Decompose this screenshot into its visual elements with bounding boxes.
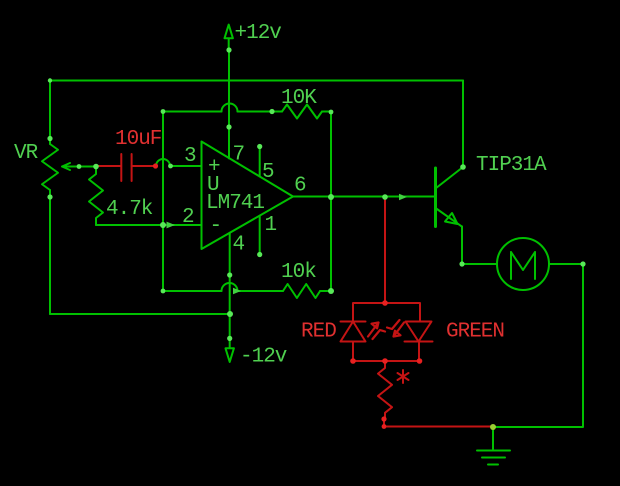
wire feedback top left: [163, 111, 222, 113]
node LED bottom right: [417, 358, 423, 364]
power -12v arrow: [226, 348, 234, 362]
resistor 4.7k zigzag: [89, 167, 103, 226]
wire VR bottom to -12v vertical: [50, 313, 230, 315]
node VR bottom: [47, 194, 52, 199]
node collector: [460, 164, 466, 170]
wire output pin 6: [293, 196, 435, 198]
node emitter corner: [459, 261, 464, 266]
wire feedback left vertical: [162, 112, 164, 292]
transistor emitter diagonal: [436, 208, 462, 226]
red network: capacitor and LEDs: [97, 154, 494, 427]
LED emission arrow D2: [387, 320, 404, 337]
node pin3 after hop: [168, 164, 173, 169]
svg-text:+12v: +12v: [235, 22, 282, 45]
svg-text:-: -: [210, 215, 222, 238]
resistor VR zigzag: [42, 144, 58, 190]
node output feedback junction: [328, 194, 334, 200]
svg-text:LM741: LM741: [206, 192, 264, 215]
arrow base wire: [399, 194, 407, 200]
svg-text:-12v: -12v: [240, 346, 287, 369]
wire pin 2: [163, 224, 202, 226]
node wiper mid: [77, 164, 82, 169]
svg-text:10uF: 10uF: [115, 128, 162, 151]
ground bar 2: [482, 457, 505, 459]
resistor R* zigzag: [378, 361, 392, 419]
wire motor right down to ground rail: [493, 264, 583, 427]
svg-text:RED: RED: [301, 321, 336, 344]
node cap right end: [153, 163, 158, 168]
svg-text:10K: 10K: [281, 87, 317, 110]
wire collector drop: [462, 81, 464, 168]
transistor collector diagonal: [436, 167, 464, 189]
LED D2 GREEN triangle: [406, 322, 432, 342]
node output LED junction: [382, 194, 388, 200]
wire hop pin3 over feedback vertical: [156, 159, 170, 166]
asterisk label: [398, 370, 409, 383]
node VR top: [47, 136, 52, 141]
resistor 10k zigzag: [283, 284, 320, 298]
svg-text:5: 5: [262, 161, 274, 184]
wire pin 4 to -12v: [229, 233, 231, 347]
ground stem: [492, 427, 494, 449]
wire feedback bottom to resistor: [238, 290, 284, 292]
node resistor bottom: [381, 416, 386, 421]
svg-text:VR: VR: [14, 142, 39, 165]
svg-text:GREEN: GREEN: [446, 321, 504, 344]
node motor right corner: [580, 261, 585, 266]
wire emitter to motor: [462, 226, 497, 264]
resistor 10K zigzag: [282, 105, 322, 119]
node ground junction: [490, 424, 496, 430]
wire 10k to output vertical: [320, 197, 331, 291]
node feedback bottom left corner: [161, 289, 166, 294]
LED D1 stub: [352, 342, 354, 362]
node feedback top right corner: [329, 110, 334, 115]
svg-text:10k: 10k: [281, 261, 316, 284]
node pin2 junction: [160, 222, 166, 228]
motor M1 circle: [497, 238, 549, 290]
wire feedback top to resistor: [238, 111, 283, 113]
junction dots green: [47, 47, 585, 430]
wire capacitor to pin3 hop: [132, 165, 156, 167]
pin 5 stub: [259, 147, 261, 177]
svg-text:TIP31A: TIP31A: [476, 154, 547, 177]
svg-text:4.7k: 4.7k: [106, 198, 153, 221]
wire LED bottom rail: [353, 360, 420, 362]
wire output to LED bridge: [384, 197, 386, 303]
wire 10K to output vertical: [322, 112, 331, 198]
power +12v arrow: [225, 25, 233, 50]
wire top rail from VR to collector corner: [50, 80, 463, 82]
node -12v junction: [227, 311, 233, 317]
transistor Q1 body bar: [434, 168, 437, 227]
arrow feedback bottom wire: [233, 288, 241, 294]
LED D2 stub: [418, 342, 420, 362]
capacitor C1 plate left: [120, 154, 122, 181]
wire resistor to ground junction: [384, 419, 493, 427]
capacitor C1 plate right: [131, 154, 133, 181]
node -12v stem: [227, 336, 232, 341]
node LED top center: [382, 300, 388, 306]
wire VR top: [49, 81, 51, 140]
svg-text:1: 1: [265, 214, 277, 237]
node +12v mid: [226, 124, 231, 129]
node +12v stem: [226, 47, 231, 52]
node top rail left corner: [48, 78, 52, 82]
wire wiper to capacitor: [97, 165, 122, 167]
junction dots red: [153, 163, 422, 429]
wire feedback bottom left: [163, 290, 222, 292]
node 4.7k top junction: [93, 164, 99, 170]
node feedback top dot: [269, 109, 274, 114]
arrow pin2 wire: [167, 222, 176, 229]
pin 1 stub: [259, 216, 261, 255]
node pin4 dot: [227, 272, 232, 277]
LED D1 RED cathode bar: [341, 321, 366, 323]
wire arrows green: [167, 194, 408, 294]
wire VR bottom drop: [49, 197, 51, 314]
wire hop over -12v vertical: [222, 283, 238, 291]
wire LED top rail: [353, 303, 420, 322]
LED D2 GREEN cathode bar: [405, 341, 433, 343]
LED D1 RED triangle: [341, 322, 366, 342]
svg-text:3: 3: [184, 145, 196, 168]
LED emission arrow D1: [368, 323, 385, 340]
transistor emitter arrow: [445, 213, 458, 224]
ground bar 3: [488, 464, 498, 466]
svg-text:2: 2: [182, 206, 194, 229]
svg-text:4: 4: [233, 234, 245, 257]
VR wiper arrow: [62, 163, 96, 170]
svg-text:6: 6: [294, 175, 306, 198]
op-amp U1 triangle: [202, 142, 294, 250]
node pin5 top: [257, 144, 262, 149]
motor M letter: [511, 252, 535, 279]
node LED bottom center: [382, 358, 388, 364]
svg-text:7: 7: [233, 144, 245, 167]
wire 4.7k bottom to pin2 net: [96, 224, 163, 226]
node pin1 bottom: [257, 252, 262, 257]
wire hop over +12v vertical: [222, 104, 238, 112]
wire pin 3: [170, 165, 202, 167]
node LED bottom left: [350, 358, 356, 364]
node resistor wire corner: [382, 424, 387, 429]
node feedback top left corner: [161, 109, 166, 114]
wire +12v to pin 7: [228, 50, 230, 158]
node feedback bottom junction: [328, 288, 334, 294]
ground bar 1: [477, 450, 510, 452]
